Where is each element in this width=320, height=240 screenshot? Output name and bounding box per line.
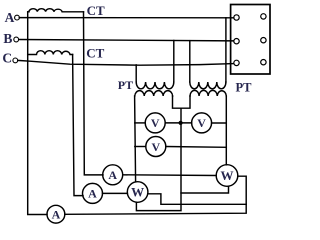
wire right voltage bus (PT2 secondary right lead down to W2 top) bbox=[225, 96, 227, 165]
svg-text:B: B bbox=[3, 31, 12, 46]
wire V1 left stub bbox=[135, 122, 145, 124]
wire V1 to V2 (through junction) bbox=[165, 122, 191, 124]
wire CT2 secondary right tap (down to ammeter A2) bbox=[73, 55, 83, 196]
wire center-tap vertical down to W1 bottom rail bbox=[136, 108, 181, 210]
node box terminal L3 bbox=[234, 60, 239, 65]
meter A1 bbox=[103, 165, 123, 185]
wire V2 right to bus bbox=[212, 122, 227, 124]
wire A2 to W1 bbox=[103, 192, 128, 194]
node junction dot on center tap bbox=[179, 121, 183, 125]
svg-text:CT: CT bbox=[86, 46, 104, 61]
wire left voltage bus (PT1 secondary left lead down to W1 top) bbox=[135, 96, 136, 182]
svg-text:W: W bbox=[131, 185, 144, 200]
node box terminal L2 bbox=[234, 39, 239, 44]
svg-text:W: W bbox=[221, 168, 234, 183]
wire CT1 secondary right tap (down to ammeter A1) bbox=[84, 12, 104, 175]
transformer PT1 secondary bbox=[135, 91, 173, 96]
transformer CT1 coil (current transformer on line A) bbox=[28, 9, 84, 12]
node box terminal R3 bbox=[261, 60, 266, 65]
svg-text:A: A bbox=[88, 187, 97, 201]
wire PT1 primary right lead to line B bbox=[173, 41, 175, 83]
wire PT2 primary left lead to line B bbox=[189, 41, 191, 82]
meter V1 bbox=[145, 113, 165, 133]
svg-text:A: A bbox=[108, 168, 117, 182]
svg-text:PT: PT bbox=[118, 78, 133, 92]
transformer CT2 coil (current transformer on line C) bbox=[28, 51, 73, 55]
wire PT secondary center-tap jog bbox=[173, 96, 191, 108]
meter V2 bbox=[192, 113, 212, 133]
wire A1 to W2 current path bbox=[123, 174, 216, 177]
wire W1 right step rail bbox=[148, 194, 247, 205]
meter W2 bbox=[216, 165, 238, 187]
transformer PT1 primary (left PT, across B-C) bbox=[136, 82, 174, 89]
svg-text:PT: PT bbox=[236, 80, 253, 94]
node box terminal R1 bbox=[261, 14, 266, 19]
node box terminal R2 bbox=[261, 38, 266, 43]
svg-text:V: V bbox=[151, 116, 160, 130]
meter A2 bbox=[83, 183, 103, 203]
svg-text:A: A bbox=[5, 10, 15, 25]
wire PT1 primary left lead to line C bbox=[135, 65, 137, 82]
meter V3 bbox=[146, 137, 166, 157]
wire line B (phase B bus) bbox=[19, 40, 234, 41]
wire V3 right to bus bbox=[166, 146, 227, 149]
wire line C (phase C bus) bbox=[18, 60, 234, 65]
node A terminal bbox=[15, 15, 20, 20]
meter W1 bbox=[127, 182, 148, 203]
wire V3 left stub bbox=[135, 146, 146, 148]
node box terminal L1 bbox=[234, 15, 239, 20]
svg-text:C: C bbox=[2, 51, 12, 66]
wire PT2 primary right lead to line A bbox=[225, 18, 227, 82]
component PT fuse box bbox=[231, 5, 270, 75]
wire W2 bottom rail bbox=[181, 186, 229, 193]
node B terminal bbox=[14, 37, 19, 42]
meter A3 bbox=[47, 205, 65, 223]
svg-text:V: V bbox=[151, 140, 160, 154]
transformer PT2 secondary bbox=[190, 90, 226, 96]
wire line A (phase A bus) bbox=[19, 17, 233, 19]
node C terminal bbox=[13, 58, 18, 63]
wire CT1 secondary left tap (common, down to ammeter A3) bbox=[28, 12, 47, 215]
transformer PT2 primary (right PT, across A-B) bbox=[190, 82, 226, 89]
svg-text:CT: CT bbox=[87, 3, 105, 18]
svg-text:A: A bbox=[52, 208, 61, 222]
svg-text:V: V bbox=[197, 116, 206, 130]
wire W2 right drop and A3 return rail bbox=[65, 176, 246, 214]
